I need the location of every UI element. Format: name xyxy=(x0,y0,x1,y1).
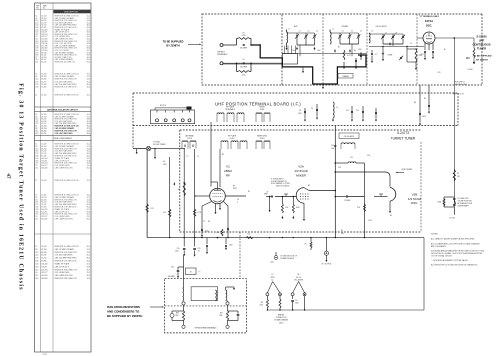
svg-text:R2: R2 xyxy=(248,191,250,193)
svg-text:OSCILLATOR: OSCILLATOR xyxy=(375,25,387,28)
svg-text:B3: B3 xyxy=(308,185,310,187)
svg-text:CONTINUOUS: CONTINUOUS xyxy=(472,43,490,47)
svg-text:BY ZENITH: BY ZENITH xyxy=(476,60,488,62)
svg-text:1000: 1000 xyxy=(317,50,321,52)
svg-text:OSC-MIXER: OSC-MIXER xyxy=(294,279,304,281)
svg-text:C18: C18 xyxy=(35,278,38,280)
svg-text:ANTENNA ISOLATION CIRCUIT: ANTENNA ISOLATION CIRCUIT xyxy=(47,108,79,111)
svg-text:C22: C22 xyxy=(35,255,38,257)
svg-text:B7: B7 xyxy=(424,98,426,100)
svg-text:C1: C1 xyxy=(299,31,301,33)
svg-text:RF AMP: RF AMP xyxy=(342,25,349,28)
svg-text:CAP. 5 MMF N750 CER.: CAP. 5 MMF N750 CER. xyxy=(55,218,74,221)
svg-text:C50: C50 xyxy=(35,266,38,268)
svg-text:RESISTOR 150K OHM 1/2 W: RESISTOR 150K OHM 1/2 W xyxy=(55,269,78,271)
svg-text:V2A: V2A xyxy=(298,165,305,169)
svg-text:Fig. 30 13 Position Target Tu: Fig. 30 13 Position Target Tuner Used in… xyxy=(18,83,24,290)
svg-text:BY ZENITH: BY ZENITH xyxy=(166,45,179,48)
svg-text:PIN 7: PIN 7 xyxy=(233,188,237,190)
svg-text:B2: B2 xyxy=(222,154,224,156)
svg-text:1500: 1500 xyxy=(260,305,264,307)
svg-text:FINE TUNING: FINE TUNING xyxy=(402,169,413,171)
svg-text:ALL RESISTORS 1/2 W UNLESS NOT: ALL RESISTORS 1/2 W UNLESS NOTED IN CHAN… xyxy=(431,263,478,266)
svg-text:2AF4A: 2AF4A xyxy=(425,19,433,23)
svg-text:B7 137V: B7 137V xyxy=(160,105,167,107)
svg-text:C9: C9 xyxy=(311,108,313,110)
svg-text:C36: C36 xyxy=(35,261,38,263)
svg-text:COILS: COILS xyxy=(259,138,265,140)
svg-text:RESISTOR 15K OHM 1 W: RESISTOR 15K OHM 1 W xyxy=(55,62,75,64)
svg-text:C32: C32 xyxy=(171,267,174,269)
svg-text:+140V: +140V xyxy=(467,69,473,71)
svg-text:C11: C11 xyxy=(346,110,349,112)
svg-text:R31: R31 xyxy=(220,313,223,315)
svg-text:30-2: 30-2 xyxy=(87,219,90,221)
svg-text:OUT OF SIGNAL CIRCUIT.: OUT OF SIGNAL CIRCUIT. xyxy=(431,254,453,257)
svg-text:1500: 1500 xyxy=(175,251,179,253)
svg-text:50-3: 50-3 xyxy=(87,62,90,64)
svg-text:AND TOLERANCE.: AND TOLERANCE. xyxy=(431,245,447,248)
svg-text:COIL, MIXER GRID: COIL, MIXER GRID xyxy=(55,272,71,274)
svg-text:2BN4: 2BN4 xyxy=(224,169,232,173)
svg-text:C4: C4 xyxy=(35,272,37,274)
svg-text:82-260: 82-260 xyxy=(41,62,46,64)
svg-text:61-259: 61-259 xyxy=(41,255,46,257)
svg-text:1500: 1500 xyxy=(295,303,299,305)
svg-text:C1: C1 xyxy=(35,246,37,248)
svg-text:59-8: 59-8 xyxy=(87,266,90,268)
svg-text:47: 47 xyxy=(5,173,11,179)
svg-text:CAP. 1500 MMF FEEDTHRU: CAP. 1500 MMF FEEDTHRU xyxy=(55,83,78,86)
svg-text:ISOLATION RESISTORS: ISOLATION RESISTORS xyxy=(107,305,140,309)
svg-text:L2: L2 xyxy=(187,156,189,158)
svg-text:C7: C7 xyxy=(203,221,205,223)
svg-text:(SEE-ON CHECK): (SEE-ON CHECK) xyxy=(276,185,290,187)
svg-text:1500: 1500 xyxy=(205,231,209,233)
svg-text:C6: C6 xyxy=(295,300,297,302)
svg-text:ON UHF POSITION: ON UHF POSITION xyxy=(458,200,473,202)
svg-text:10-1: 10-1 xyxy=(87,180,90,182)
svg-text:C3: C3 xyxy=(316,31,318,33)
svg-text:1.5 MMF: 1.5 MMF xyxy=(344,200,350,202)
svg-text:C2: C2 xyxy=(242,59,244,61)
svg-text:C11: C11 xyxy=(35,275,38,277)
svg-text:CAP. 5 MMF N750 CER.: CAP. 5 MMF N750 CER. xyxy=(55,167,74,170)
svg-text:1.209: 1.209 xyxy=(368,220,372,222)
svg-text:V2B: V2B xyxy=(412,192,418,196)
svg-text:OSC.: OSC. xyxy=(426,24,433,28)
svg-text:CAP. 470 MMF CERAMIC: CAP. 470 MMF CERAMIC xyxy=(55,248,75,251)
svg-text:TO GRID SECTION OF: TO GRID SECTION OF xyxy=(280,255,297,257)
svg-text:30-2: 30-2 xyxy=(87,275,90,277)
svg-text:NOTES:: NOTES: xyxy=(431,234,439,236)
svg-text:C57: C57 xyxy=(35,269,38,271)
svg-text:COIL, ANT. MATCHING: COIL, ANT. MATCHING xyxy=(55,132,74,135)
svg-text:FOR UHF 'U': FOR UHF 'U' xyxy=(455,82,466,84)
svg-text:152-630: 152-630 xyxy=(41,168,47,170)
svg-text:UHF POSITION TERMINAL BOARD: UHF POSITION TERMINAL BOARD (I.F.) xyxy=(215,101,301,106)
svg-text:37-3: 37-3 xyxy=(87,278,90,280)
svg-text:DESCRIPTION: DESCRIPTION xyxy=(64,12,78,14)
svg-text:30-2: 30-2 xyxy=(87,168,90,170)
svg-text:52-7: 52-7 xyxy=(87,263,90,265)
svg-text:RESISTOR 4.7K OHM 1/2 W: RESISTOR 4.7K OHM 1/2 W xyxy=(55,261,77,263)
svg-text:RESISTOR 4.7K OHM 1/2 W: RESISTOR 4.7K OHM 1/2 W xyxy=(55,87,77,89)
svg-text:"U" MODELS ONLY: "U" MODELS ONLY xyxy=(419,16,440,18)
svg-text:4.7: 4.7 xyxy=(375,54,377,56)
svg-text:126-524: 126-524 xyxy=(41,269,47,271)
svg-text:61-259: 61-259 xyxy=(41,133,46,135)
svg-text:87V OR 12 27: 87V OR 12 27 xyxy=(453,94,464,96)
svg-text:OSCILLATOR: OSCILLATOR xyxy=(344,135,355,138)
svg-text:L7: L7 xyxy=(199,271,201,273)
svg-text:470 MMF: 470 MMF xyxy=(240,67,247,69)
svg-text:2700: 2700 xyxy=(242,75,246,77)
svg-text:87-365: 87-365 xyxy=(41,87,46,89)
svg-text:C11: C11 xyxy=(35,219,38,221)
svg-text:470 MMF: 470 MMF xyxy=(240,48,247,50)
svg-text:CLOSED ONLY: CLOSED ONLY xyxy=(458,198,470,200)
svg-text:47: 47 xyxy=(190,272,192,274)
svg-text:165-683: 165-683 xyxy=(41,278,47,280)
svg-text:R30: R30 xyxy=(176,313,179,315)
svg-text:COIL, ANT. MATCHING: COIL, ANT. MATCHING xyxy=(55,80,73,83)
svg-text:C15: C15 xyxy=(338,167,341,169)
svg-text:REF: REF xyxy=(36,6,39,8)
svg-text:220K: 220K xyxy=(175,315,179,317)
svg-text:VHF ANTENNA TERMINALS: VHF ANTENNA TERMINALS xyxy=(195,326,218,329)
svg-text:45-6: 45-6 xyxy=(87,261,90,263)
svg-text:1/2 5CG8: 1/2 5CG8 xyxy=(408,197,422,201)
svg-text:C6: C6 xyxy=(360,31,362,33)
svg-text:C9: C9 xyxy=(410,43,412,45)
svg-text:C6: C6 xyxy=(237,199,239,201)
svg-text:C2: C2 xyxy=(308,31,310,33)
svg-text:31-4: 31-4 xyxy=(87,255,90,257)
svg-text:OF UHF TUNER: OF UHF TUNER xyxy=(153,144,166,146)
svg-text:TO OSC: TO OSC xyxy=(449,218,456,220)
svg-text:COILS: COILS xyxy=(229,138,235,140)
svg-text:S-24773: S-24773 xyxy=(397,131,409,135)
svg-text:680 MMF: 680 MMF xyxy=(168,276,175,278)
svg-text:RESISTOR 220K OHM 1/2 W: RESISTOR 220K OHM 1/2 W xyxy=(55,278,78,280)
svg-text:R3: R3 xyxy=(208,221,210,223)
svg-text:B+: B+ xyxy=(444,49,446,51)
svg-text:AND CONDENSERS TO: AND CONDENSERS TO xyxy=(107,309,140,313)
svg-text:C43: C43 xyxy=(35,263,38,265)
svg-text:C36: C36 xyxy=(35,87,38,89)
svg-text:L.605: L.605 xyxy=(270,262,274,264)
svg-text:C4: C4 xyxy=(163,161,165,163)
svg-text:TERMINALS: TERMINALS xyxy=(217,53,228,56)
svg-text:1/2 5CG8: 1/2 5CG8 xyxy=(294,169,308,173)
svg-text:74-312: 74-312 xyxy=(41,258,46,260)
svg-text:CAP. 5 MMF N750 CER.: CAP. 5 MMF N750 CER. xyxy=(55,274,74,277)
svg-text:22-100: 22-100 xyxy=(41,180,46,182)
svg-text:RF: RF xyxy=(226,174,230,178)
svg-text:C8: C8 xyxy=(35,249,37,251)
svg-text:COIL, ANT. MATCHING: COIL, ANT. MATCHING xyxy=(55,254,73,257)
svg-text:I.F. OUTPUT: I.F. OUTPUT xyxy=(321,263,332,265)
svg-text:23-1: 23-1 xyxy=(87,272,90,274)
svg-text:31-4: 31-4 xyxy=(87,133,90,135)
svg-text:1000: 1000 xyxy=(422,116,426,118)
svg-text:COILS: COILS xyxy=(187,138,193,140)
svg-text:10-1: 10-1 xyxy=(87,246,90,248)
svg-text:C8: C8 xyxy=(299,110,301,112)
svg-text:V1: V1 xyxy=(226,165,230,169)
svg-text:2700: 2700 xyxy=(242,35,246,37)
svg-text:* - INDICATES ALIGNMENT CRITIC: * - INDICATES ALIGNMENT CRITICAL VALUE. xyxy=(431,259,468,262)
svg-text:1500: 1500 xyxy=(229,245,233,247)
svg-text:FIL OF: FIL OF xyxy=(296,277,301,279)
svg-text:4.5/6.3: 4.5/6.3 xyxy=(279,322,284,324)
svg-text:B+: B+ xyxy=(272,279,274,281)
svg-text:OSC.: OSC. xyxy=(411,201,419,205)
svg-text:B5: B5 xyxy=(390,215,392,217)
svg-text:100-418: 100-418 xyxy=(41,263,47,265)
svg-text:48-206: 48-206 xyxy=(41,252,46,254)
svg-text:220K: 220K xyxy=(219,315,223,317)
svg-text:TUBE COMPLEMENT: TUBE COMPLEMENT xyxy=(53,138,73,140)
svg-text:C1: C1 xyxy=(35,95,37,97)
svg-text:R5: R5 xyxy=(457,173,459,175)
svg-text:22-100: 22-100 xyxy=(41,246,46,248)
svg-text:TURRET TUNER: TURRET TUNER xyxy=(391,137,416,141)
svg-text:C11: C11 xyxy=(35,168,38,170)
svg-text:L13: L13 xyxy=(350,157,353,159)
svg-text:TUNER: TUNER xyxy=(477,47,486,51)
svg-text:1000: 1000 xyxy=(163,164,167,166)
svg-text:R9: R9 xyxy=(341,230,343,232)
svg-text:22-100: 22-100 xyxy=(41,95,46,97)
svg-text:B4: B4 xyxy=(354,50,356,52)
svg-text:RESISTOR 1K OHM 1/2 W 10%: RESISTOR 1K OHM 1/2 W 10% xyxy=(55,95,80,97)
svg-text:139-577: 139-577 xyxy=(41,272,47,274)
svg-text:16-9: 16-9 xyxy=(87,269,90,271)
svg-text:L9: L9 xyxy=(336,107,338,109)
svg-text:C16: C16 xyxy=(177,248,180,250)
svg-text:1000: 1000 xyxy=(298,113,302,115)
svg-text:C12: C12 xyxy=(356,110,359,112)
svg-text:TO BE SUPPLIED: TO BE SUPPLIED xyxy=(163,41,184,44)
svg-text:113-471: 113-471 xyxy=(41,266,47,268)
svg-text:UHF ANT.: UHF ANT. xyxy=(217,51,226,54)
svg-text:TRANS. RF PLATE: TRANS. RF PLATE xyxy=(55,262,70,265)
svg-text:87-365: 87-365 xyxy=(41,261,46,263)
svg-text:C18: C18 xyxy=(367,155,370,157)
svg-text:B6: B6 xyxy=(298,274,300,276)
svg-text:L14: L14 xyxy=(163,212,166,214)
svg-text:RESISTOR 1K OHM 1/2 W 10%: RESISTOR 1K OHM 1/2 W 10% xyxy=(55,180,80,182)
svg-text:10-1: 10-1 xyxy=(87,95,90,97)
svg-text:C14: C14 xyxy=(331,145,334,147)
svg-text:S-22530: S-22530 xyxy=(476,35,487,39)
svg-text:C21: C21 xyxy=(35,62,38,64)
svg-text:CONNECTION: CONNECTION xyxy=(276,317,288,319)
svg-text:MODELS ONLY: MODELS ONLY xyxy=(455,84,468,86)
svg-text:B7: B7 xyxy=(233,185,235,187)
svg-text:CAP. 1500 MMF FEEDTHRU: CAP. 1500 MMF FEEDTHRU xyxy=(55,257,78,260)
svg-text:MIXER: MIXER xyxy=(296,174,307,178)
svg-text:17-2: 17-2 xyxy=(87,249,90,251)
svg-text:1000: 1000 xyxy=(331,148,335,150)
svg-text:B6: B6 xyxy=(414,102,416,104)
svg-text:RESISTOR 2700 OHM 1/2 W: RESISTOR 2700 OHM 1/2 W xyxy=(55,252,78,254)
svg-text:38-5: 38-5 xyxy=(87,258,90,260)
svg-text:CAP. 470 MMF CERAMIC: CAP. 470 MMF CERAMIC xyxy=(55,75,75,78)
svg-text:C4: C4 xyxy=(342,31,344,33)
svg-text:C15: C15 xyxy=(35,252,38,254)
svg-text:L16: L16 xyxy=(248,234,251,236)
svg-text:TERMINALS: TERMINALS xyxy=(225,108,236,111)
svg-text:.7 MMF: .7 MMF xyxy=(387,55,392,57)
svg-text:L3: L3 xyxy=(371,31,373,33)
svg-text:BE SUPPLIED BY ZENITH: BE SUPPLIED BY ZENITH xyxy=(107,314,142,318)
svg-text:L3: L3 xyxy=(197,156,199,158)
svg-text:C1: C1 xyxy=(35,180,37,182)
svg-text:1000: 1000 xyxy=(292,50,296,52)
svg-text:5: 5 xyxy=(237,202,238,204)
svg-text:.25: .25 xyxy=(198,251,200,253)
svg-text:C29: C29 xyxy=(35,258,38,260)
svg-text:.47: .47 xyxy=(266,192,268,194)
svg-text:35-153: 35-153 xyxy=(41,249,46,251)
svg-text:C5: C5 xyxy=(351,31,353,33)
svg-text:152-630: 152-630 xyxy=(41,219,47,221)
svg-text:R6: R6 xyxy=(261,302,263,304)
svg-text:152-630: 152-630 xyxy=(41,275,47,277)
svg-text:-TO BE SUPPLIED: -TO BE SUPPLIED xyxy=(473,56,492,58)
svg-text:t 1732: t 1732 xyxy=(42,353,47,356)
svg-text:L2: L2 xyxy=(332,29,334,31)
svg-text:B2: B2 xyxy=(338,47,340,49)
svg-text:24-3: 24-3 xyxy=(87,252,90,254)
svg-text:C22: C22 xyxy=(35,133,38,135)
svg-text:C15: C15 xyxy=(198,248,201,250)
svg-text:ALL CAPACITY VALUES IN MMF UNL: ALL CAPACITY VALUES IN MMF UNLESS SPECIF… xyxy=(431,238,475,241)
svg-text:45-6: 45-6 xyxy=(87,87,90,89)
svg-text:270: 270 xyxy=(151,208,154,210)
svg-text:MMF: MMF xyxy=(264,194,268,196)
svg-text:L1: L1 xyxy=(288,29,290,31)
svg-text:RESISTOR 1K OHM 1/2 W 10%: RESISTOR 1K OHM 1/2 W 10% xyxy=(55,246,80,248)
svg-text:UHF: UHF xyxy=(479,39,485,43)
svg-text:CAP. .25 MF 200 V: CAP. .25 MF 200 V xyxy=(55,265,70,268)
svg-text:ANT.: ANT. xyxy=(294,25,298,28)
